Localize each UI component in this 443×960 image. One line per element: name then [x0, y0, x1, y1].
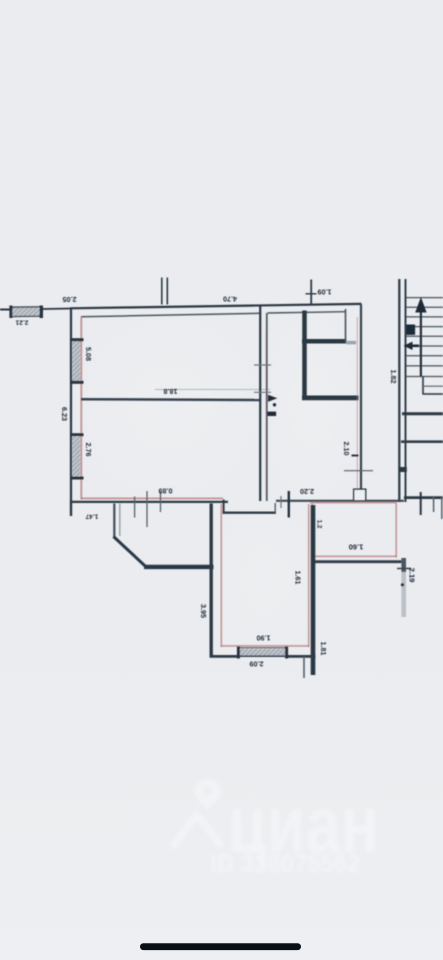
- svg-text:2.76: 2.76: [84, 443, 93, 457]
- svg-text:1.09: 1.09: [318, 288, 332, 297]
- svg-text:1.60: 1.60: [349, 543, 364, 552]
- svg-text:1.90: 1.90: [257, 634, 271, 643]
- svg-text:3.95: 3.95: [199, 604, 208, 618]
- svg-text:1.2: 1.2: [316, 520, 323, 529]
- svg-text:ID 328075562: ID 328075562: [210, 850, 360, 878]
- svg-text:6.23: 6.23: [60, 407, 69, 421]
- svg-text:1.61: 1.61: [294, 571, 303, 585]
- svg-text:1.81: 1.81: [319, 642, 328, 656]
- svg-text:2.05: 2.05: [63, 295, 77, 304]
- svg-text:2.20: 2.20: [300, 487, 314, 496]
- svg-text:2.10: 2.10: [342, 442, 351, 456]
- svg-text:2.09: 2.09: [250, 660, 264, 669]
- svg-text:4.70: 4.70: [223, 295, 237, 304]
- svg-text:1.47: 1.47: [85, 513, 98, 520]
- svg-text:2.21: 2.21: [15, 319, 28, 326]
- svg-text:5.08: 5.08: [84, 347, 93, 361]
- svg-text:1.82: 1.82: [389, 370, 398, 384]
- svg-text:0.89: 0.89: [159, 487, 173, 496]
- svg-text:2.19: 2.19: [408, 568, 417, 583]
- svg-text:18.8: 18.8: [164, 387, 178, 396]
